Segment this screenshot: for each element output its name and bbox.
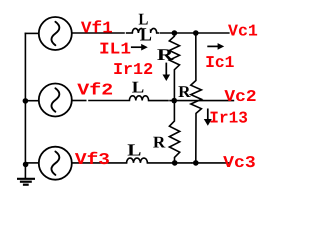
svg-text:L: L [140,24,152,45]
svg-text:Ic1: Ic1 [205,53,234,72]
svg-text:Ir12: Ir12 [113,60,153,79]
svg-text:Vf2: Vf2 [77,80,113,99]
svg-text:R: R [153,133,167,152]
svg-text:L: L [132,77,145,96]
svg-text:R: R [178,82,192,101]
svg-text:Vf1: Vf1 [81,19,113,38]
svg-text:Ir13: Ir13 [209,109,248,128]
svg-text:R: R [157,45,175,64]
svg-text:IL1: IL1 [99,40,131,59]
svg-text:Vc1: Vc1 [228,22,258,41]
svg-text:Vc2: Vc2 [224,87,256,106]
svg-text:Vf3: Vf3 [75,150,110,169]
svg-text:L: L [127,140,141,159]
svg-text:Vc3: Vc3 [223,153,256,172]
